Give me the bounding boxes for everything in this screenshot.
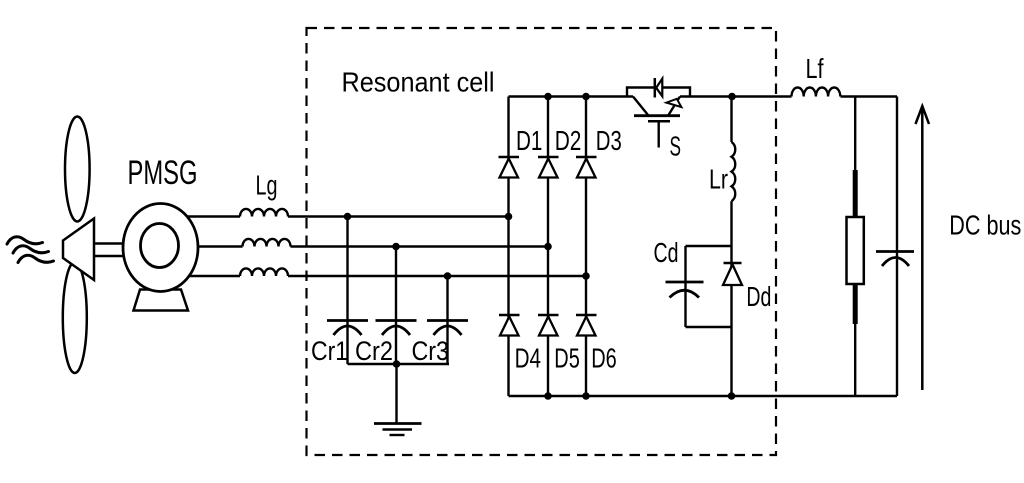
node phase B / leg2 [544, 243, 552, 251]
diode D2 [538, 156, 559, 159]
wind squiggle 3 [18, 255, 54, 262]
wire Cd loop left [684, 246, 686, 327]
IGBT S collector slant [633, 97, 648, 116]
wire Cd loop bottom [686, 326, 732, 328]
svg-text:PMSG: PMSG [128, 154, 198, 192]
wire Cd loop top [686, 245, 732, 247]
wire top bus middle (switch to Lf) [680, 95, 792, 97]
svg-text:Lg: Lg [256, 170, 278, 201]
inductor Lf [792, 87, 841, 96]
svg-text:Cr3: Cr3 [412, 336, 450, 366]
svg-text:Dd: Dd [746, 281, 771, 312]
svg-text:Lf: Lf [806, 53, 824, 84]
capacitor Cr3 lead [446, 276, 448, 364]
node switch / Lr junction [728, 93, 736, 101]
wire phase B [170, 245, 243, 247]
dashed box resonant cell [307, 28, 777, 455]
generator PMSG body [123, 204, 198, 292]
wire bridge leg 2 [547, 97, 549, 397]
shaft [94, 242, 130, 245]
node top bus leg2 [544, 93, 552, 101]
wire Lr leg bottom [730, 201, 732, 396]
IGBT S emitter [669, 97, 681, 116]
diode D3 [576, 156, 597, 159]
wire bridge leg 3 [585, 97, 587, 397]
diode D1 [499, 156, 520, 159]
diode D4 [499, 314, 520, 317]
IGBT S channel bar [634, 114, 680, 117]
inductor Lg phase C [240, 268, 288, 276]
svg-text:D2: D2 [555, 125, 582, 156]
svg-text:D1: D1 [516, 125, 542, 156]
capacitor Cr1 [327, 319, 368, 322]
svg-text:Cd: Cd [654, 237, 679, 268]
svg-text:S: S [670, 131, 682, 162]
node bottom bus leg3 [582, 392, 590, 400]
wire phase B right [291, 245, 549, 247]
capacitor Cr1 lead [346, 217, 348, 365]
inductor Lr [732, 142, 736, 201]
arrow DC bus [921, 107, 924, 391]
IGBT S loop [627, 88, 690, 97]
wire ground lead [395, 364, 397, 424]
capacitor Cd [666, 281, 704, 284]
svg-text:Resonant cell: Resonant cell [342, 67, 495, 98]
svg-text:Cr1: Cr1 [311, 336, 348, 366]
wire right bus [896, 97, 898, 397]
node phase C / Cr3 [444, 272, 452, 280]
svg-text:D5: D5 [554, 343, 580, 374]
capacitor Cr2 lead [395, 247, 397, 365]
ground [374, 422, 422, 425]
svg-text:D3: D3 [596, 125, 622, 156]
svg-text:D6: D6 [591, 343, 617, 374]
wire phase A [170, 215, 240, 217]
IGBT S gate bar [648, 120, 670, 123]
wire top bus right (Lf to DC bus) [841, 95, 898, 97]
wire bottom bus [509, 395, 898, 397]
node phase A / Cr1 [344, 213, 352, 221]
wire top bus left (bridge to switch) [509, 95, 634, 97]
diode D6 [576, 314, 597, 317]
node Lr leg bottom [728, 392, 736, 400]
capacitor DC bus [876, 250, 914, 253]
capacitor Cr2 [376, 319, 417, 322]
node top bus leg3 [582, 93, 590, 101]
inductor Lg phase A [240, 209, 288, 217]
diode D5 [538, 314, 559, 317]
turbine blade top [65, 117, 90, 222]
inductor Lg phase B [243, 239, 291, 247]
resistor load body [847, 217, 864, 284]
node bottom bus leg2 [544, 392, 552, 400]
generator PMSG stand [134, 290, 189, 311]
turbine hub [63, 219, 94, 281]
wind squiggle 2 [13, 246, 49, 253]
wire Lr leg top [730, 97, 732, 143]
svg-text:D4: D4 [515, 343, 541, 374]
diode Dd [724, 262, 742, 265]
resistor load leads [854, 97, 856, 173]
svg-text:DC bus: DC bus [949, 210, 1021, 241]
capacitor Cr3 [427, 319, 468, 322]
wire bridge leg 1 [507, 97, 509, 397]
node phase C / leg3 [582, 272, 590, 280]
turbine blade bottom [63, 262, 87, 373]
IGBT S antiparallel diode [654, 78, 657, 98]
node rail-ground junction [393, 360, 401, 368]
wind squiggle 1 [7, 237, 43, 244]
svg-text:Lr: Lr [709, 164, 728, 195]
wire capacitor common rail [348, 363, 450, 365]
wire phase A right [288, 215, 509, 217]
node phase A / leg1 [505, 213, 513, 221]
wire phase C right [288, 275, 586, 277]
wire phase C [170, 275, 240, 277]
node phase B / Cr2 [392, 243, 400, 251]
IGBT S gate lead [658, 121, 660, 147]
svg-text:Cr2: Cr2 [355, 336, 393, 366]
